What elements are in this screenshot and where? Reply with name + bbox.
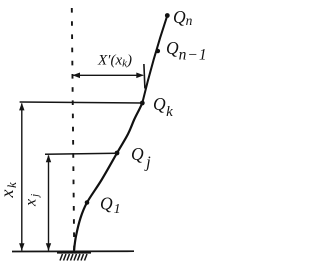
svg-text:Qn−1: Qn−1	[166, 38, 208, 64]
svg-text:X′(xk): X′(xk)	[97, 53, 132, 70]
svg-text:xj: xj	[23, 194, 42, 207]
svg-text:xk: xk	[0, 182, 19, 199]
svg-text:Qn: Qn	[173, 7, 193, 28]
svg-text:Q1: Q1	[100, 194, 121, 218]
svg-text:Qk: Qk	[153, 94, 173, 120]
svg-text:Qj: Qj	[131, 144, 151, 172]
